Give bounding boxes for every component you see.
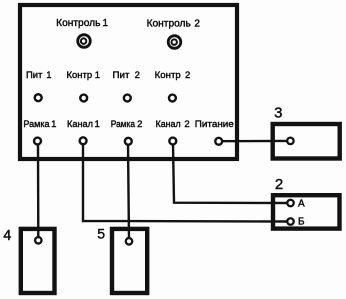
- svg-text:Контроль: Контроль: [56, 18, 100, 29]
- terminal Контр 1: [80, 95, 87, 102]
- svg-text:Контр: Контр: [155, 70, 181, 81]
- svg-text:Контроль: Контроль: [147, 19, 191, 30]
- svg-text:Контр: Контр: [67, 70, 93, 81]
- terminal А of box 2: [287, 200, 294, 207]
- svg-text:Рамка: Рамка: [111, 119, 136, 130]
- terminal Контр 2: [169, 95, 176, 102]
- box 5: [112, 229, 147, 293]
- svg-text:5: 5: [97, 226, 105, 242]
- terminal Канал 2: [169, 138, 176, 145]
- svg-text:Рамка: Рамка: [23, 119, 50, 130]
- wire Питание to box 3: [219, 140, 290, 143]
- svg-text:3: 3: [274, 104, 282, 121]
- terminal Б of box 2: [287, 218, 294, 225]
- svg-text:4: 4: [3, 228, 11, 244]
- svg-text:Канал: Канал: [156, 119, 181, 130]
- terminal Рамка 2: [125, 138, 132, 145]
- connector Контроль 1: [78, 35, 91, 48]
- svg-text:1: 1: [46, 70, 51, 81]
- svg-text:Б: Б: [298, 216, 305, 227]
- svg-text:1: 1: [51, 119, 56, 130]
- svg-text:2: 2: [194, 19, 200, 30]
- terminal Питание: [215, 138, 222, 145]
- box 3: [273, 124, 340, 159]
- connector Контроль 2: [168, 36, 181, 49]
- wire Канал 2 to terminal А: [173, 144, 291, 203]
- svg-text:2: 2: [135, 70, 140, 81]
- main unit box 1: [20, 5, 237, 159]
- terminal Канал 1: [80, 137, 87, 144]
- svg-text:2: 2: [137, 119, 142, 130]
- terminal Пит 2: [124, 95, 131, 102]
- terminal of box 3: [287, 138, 294, 145]
- terminal of box 4: [35, 237, 42, 244]
- terminal Пит 1: [35, 94, 42, 101]
- svg-text:1: 1: [94, 119, 99, 130]
- svg-text:А: А: [298, 198, 305, 209]
- svg-text:Питание: Питание: [195, 119, 234, 130]
- svg-text:2: 2: [185, 70, 190, 81]
- wire Рамка 1 to box 4: [37, 144, 40, 240]
- svg-text:1: 1: [103, 18, 109, 29]
- terminal of box 5: [126, 238, 133, 245]
- svg-text:2: 2: [275, 176, 283, 193]
- svg-text:1: 1: [95, 70, 100, 81]
- svg-text:2: 2: [184, 119, 189, 130]
- svg-text:Пит: Пит: [113, 70, 131, 81]
- svg-text:Пит: Пит: [26, 70, 43, 81]
- box 4: [21, 229, 55, 293]
- svg-text:Канал: Канал: [67, 119, 93, 130]
- wire Канал 1 to terminal Б: [83, 144, 291, 222]
- box 2: [273, 195, 340, 228]
- terminal Рамка 1: [34, 138, 41, 145]
- wire Рамка 2 to box 5: [128, 144, 129, 241]
